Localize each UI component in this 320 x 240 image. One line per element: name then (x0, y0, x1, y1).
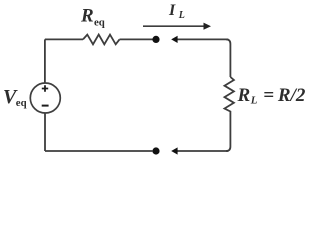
node A (top junction dot) (152, 36, 159, 43)
svg-text:L: L (250, 95, 258, 107)
wire: left vertical from bottom corner up to source (44, 113, 46, 151)
svg-text:R: R (80, 6, 94, 27)
wire: top-left horizontal segment from left corner to R_eq (45, 38, 83, 40)
svg-text:= R/2: = R/2 (260, 85, 306, 106)
wire: left vertical from top corner down to source (44, 39, 46, 83)
voltage source minus sign (42, 105, 49, 107)
wire: top-right segment with left arrowhead into node (177, 38, 229, 40)
svg-text:eq: eq (94, 17, 105, 29)
svg-text:L: L (178, 10, 185, 21)
node B (bottom junction dot) (152, 147, 159, 154)
current arrow I_L (143, 25, 206, 27)
wire: bottom segment from node to bottom-left corner (45, 150, 153, 152)
wire: top segment from R_eq to node (120, 38, 154, 40)
resistor R_L zigzag (vertical) (225, 77, 234, 114)
svg-text:I: I (168, 2, 176, 19)
wire: right vertical from R_L to bottom corner (226, 114, 230, 151)
voltage source plus sign (42, 85, 48, 92)
svg-text:eq: eq (16, 97, 27, 109)
svg-text:R: R (237, 85, 251, 106)
wire: right vertical from top corner down to R_L (226, 39, 230, 77)
voltage source V_eq circle (30, 83, 60, 113)
resistor R_eq zigzag (83, 35, 120, 45)
wire: bottom-right segment with left arrowhead into bottom node (177, 150, 229, 152)
